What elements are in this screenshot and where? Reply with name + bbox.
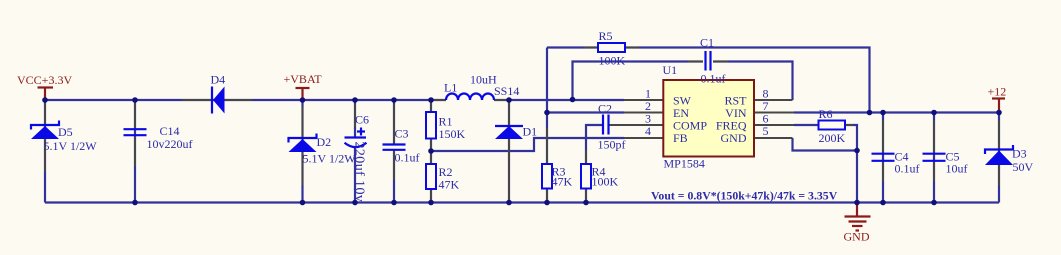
- junction dot EN: [544, 110, 550, 116]
- junction dot GND jog: [854, 148, 860, 154]
- pin C6 top: [354, 104, 356, 127]
- resistor R6: [819, 107, 846, 145]
- pin D3 top: [998, 120, 1000, 150]
- resistor R2: [426, 164, 460, 192]
- pin R4 top: [585, 150, 587, 164]
- wire C6 bottom pin: [354, 148, 356, 203]
- wire EN horizontal: [547, 111, 624, 113]
- svg-text:R6: R6: [819, 107, 833, 121]
- svg-text:D3: D3: [1012, 147, 1027, 161]
- pin U1 pin6: [754, 124, 794, 126]
- ground symbol GND: [844, 203, 871, 244]
- svg-text:0.1uf: 0.1uf: [395, 151, 420, 165]
- power symbol +VBAT: [284, 72, 323, 100]
- zener diode D5: [31, 121, 97, 154]
- resistor R1: [426, 112, 466, 141]
- svg-text:100K: 100K: [592, 175, 619, 189]
- wire C5 column: [933, 113, 935, 203]
- svg-text:5.1V 1/2W: 5.1V 1/2W: [44, 139, 98, 153]
- svg-text:5: 5: [763, 124, 769, 138]
- pin R3 top: [546, 128, 548, 164]
- svg-text:C6: C6: [355, 113, 369, 127]
- pin R2 top: [430, 151, 432, 164]
- pin D2 bottom: [302, 152, 304, 185]
- pin R5 right stub: [625, 47, 639, 49]
- pin D1 bottom: [508, 139, 510, 200]
- svg-text:150K: 150K: [439, 127, 466, 141]
- capacitor C4: [872, 150, 920, 176]
- pin C14 top: [134, 103, 136, 128]
- wire C3 bottom pin: [393, 151, 395, 203]
- wire C1 loop: [573, 62, 704, 100]
- svg-text:200K: 200K: [819, 131, 846, 145]
- wire D2 column: [301, 100, 303, 203]
- wire C6 column: [354, 100, 356, 137]
- diode D4: [211, 73, 226, 114]
- svg-text:4: 4: [645, 124, 651, 138]
- capacitor C5: [923, 150, 968, 176]
- svg-text:C1: C1: [700, 36, 714, 50]
- pin C5 bottom: [933, 162, 935, 181]
- svg-text:C14: C14: [160, 124, 180, 138]
- svg-text:D1: D1: [523, 125, 538, 139]
- pin C5 top: [933, 120, 935, 153]
- pin U1 pin5: [754, 137, 793, 139]
- svg-text:0.1uf: 0.1uf: [895, 162, 920, 176]
- svg-text:D5: D5: [58, 125, 73, 139]
- pin C14 bottom: [134, 136, 136, 166]
- pin D4 right: [225, 99, 253, 101]
- polarized capacitor C6: [345, 113, 370, 203]
- pin R6 right stub: [845, 124, 853, 126]
- wire R1 R2 column: [430, 100, 432, 203]
- capacitor C1: [700, 36, 726, 86]
- svg-text:R5: R5: [599, 29, 613, 43]
- svg-text:+VBAT: +VBAT: [284, 72, 323, 86]
- pin R1 bottom: [430, 139, 432, 152]
- resistor R4: [581, 164, 619, 189]
- resistor R3: [542, 164, 573, 189]
- schottky diode D1: [495, 125, 537, 140]
- junction dots top rail: [42, 97, 48, 103]
- junction dot R1 R2 mid: [428, 148, 434, 154]
- svg-text:5.1V 1/2W: 5.1V 1/2W: [303, 152, 357, 166]
- pin U1 pin8: [754, 99, 793, 101]
- power symbol +12: [988, 85, 1007, 113]
- wire COMP to C2: [586, 125, 603, 203]
- wire bottom rail: [45, 201, 999, 203]
- pin U1 pin2: [624, 112, 664, 114]
- wire C14 column: [134, 100, 136, 203]
- pin R3 bottom: [546, 189, 548, 201]
- svg-text:C3: C3: [395, 127, 409, 141]
- svg-text:GND: GND: [844, 230, 870, 244]
- capacitor C14: [124, 124, 193, 151]
- svg-text:GND: GND: [721, 131, 747, 145]
- pin U1 pin7: [754, 112, 794, 114]
- pin D3 bottom: [998, 165, 1000, 186]
- svg-text:Vout = 0.8V*(150k+47k)/47k = 3: Vout = 0.8V*(150k+47k)/47k = 3.35V: [651, 189, 838, 203]
- pin U1 pin1: [624, 99, 664, 101]
- pin C2 right stub: [609, 124, 664, 126]
- svg-text:10uf: 10uf: [946, 162, 968, 176]
- wire FB jog horizontal y151: [431, 138, 624, 151]
- pin D1 top: [508, 102, 510, 126]
- wire D1 column: [508, 100, 510, 203]
- resistor R5: [598, 29, 626, 68]
- svg-text:10v220uf: 10v220uf: [147, 137, 193, 151]
- svg-text:+12: +12: [988, 85, 1007, 99]
- svg-text:L1: L1: [444, 81, 457, 95]
- wire GND pin jog: [793, 138, 858, 151]
- pin C3 top: [393, 104, 395, 144]
- svg-text:10uH: 10uH: [470, 73, 497, 87]
- pin D2 top: [302, 106, 304, 138]
- pin C1 left stub: [688, 61, 703, 63]
- svg-text:0.1uf: 0.1uf: [701, 72, 726, 86]
- wire D3 column: [998, 113, 1000, 203]
- wire R6 left: [794, 124, 819, 126]
- svg-text:MP1584: MP1584: [664, 157, 705, 171]
- capacitor C2: [598, 102, 626, 152]
- wire EN R3 vertical: [546, 48, 548, 203]
- svg-text:47K: 47K: [439, 178, 460, 192]
- pin C4 bottom: [882, 162, 884, 181]
- inductor L1: [444, 73, 497, 101]
- wire C3 column: [393, 100, 395, 144]
- wire left vertical VCC to bottom: [44, 100, 46, 203]
- svg-text:D2: D2: [317, 135, 332, 149]
- wire top rail right segment after L1: [494, 99, 624, 101]
- wire R6 right corner down: [845, 125, 857, 203]
- pin C1 right stub: [713, 61, 728, 63]
- junction dots bottom rail: [132, 200, 138, 206]
- svg-text:47K: 47K: [552, 175, 573, 189]
- op-amp U1 MP1584 body: [645, 63, 769, 171]
- pin R2 bottom: [430, 189, 432, 203]
- wire top rail left segment: [45, 99, 446, 101]
- zener diode D3: [985, 145, 1034, 174]
- svg-text:150pf: 150pf: [598, 138, 626, 152]
- wire R5 loop top: [547, 48, 870, 113]
- svg-text:U1: U1: [663, 63, 678, 77]
- capacitor C3: [383, 127, 420, 165]
- svg-text:FB: FB: [673, 131, 688, 145]
- pin C4 top: [882, 120, 884, 153]
- pin D5 bottom: [44, 139, 46, 172]
- svg-text:D4: D4: [211, 73, 226, 87]
- wire C4 column: [882, 113, 884, 203]
- power symbol VCC+3.3V: [17, 73, 72, 100]
- zener diode D2: [289, 134, 357, 166]
- pin U1 pin4: [624, 137, 664, 139]
- pin D5 top: [44, 103, 46, 125]
- svg-text:220uf 10v: 220uf 10v: [352, 142, 367, 203]
- svg-text:50V: 50V: [1013, 160, 1034, 174]
- svg-text:C2: C2: [598, 102, 612, 116]
- pin D4 left: [182, 99, 212, 101]
- svg-text:SS14: SS14: [494, 84, 519, 98]
- svg-text:VCC+3.3V: VCC+3.3V: [17, 73, 72, 87]
- wire C1 right to pin8 corner: [713, 62, 793, 101]
- pin R1 top: [430, 100, 432, 112]
- pin R5 left stub: [584, 47, 598, 49]
- junction dots VIN rail: [867, 110, 873, 116]
- wire VIN rail: [794, 111, 999, 113]
- svg-text:100K: 100K: [599, 54, 626, 68]
- pin L1 left: [434, 99, 446, 101]
- pin C3 bottom: [393, 151, 395, 181]
- pin L1 right: [494, 99, 508, 101]
- pin R4 bottom: [585, 189, 587, 201]
